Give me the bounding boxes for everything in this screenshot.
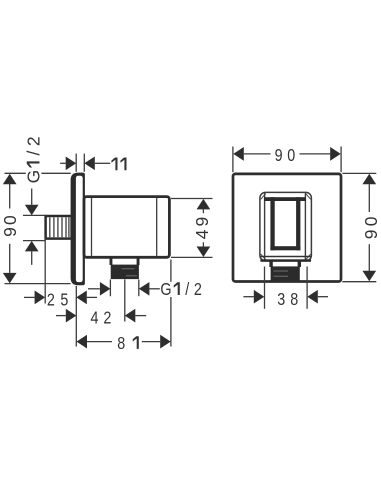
label G 1/2 top left leader bbox=[31, 189, 33, 205]
holder outer outline bbox=[260, 192, 312, 261]
svg-text:9: 9 bbox=[0, 227, 20, 237]
extension line flange left for 25/42/81 bbox=[75, 286, 77, 347]
body inner line 1 bbox=[91, 198, 93, 256]
flange side view bbox=[71, 173, 85, 286]
svg-text:9: 9 bbox=[275, 147, 283, 166]
dimension 49 bbox=[171, 199, 213, 258]
holder inner side lines bbox=[264, 193, 266, 260]
dimension 90 top bbox=[233, 147, 341, 173]
dimension 90 left bbox=[5, 173, 71, 283]
svg-text:8: 8 bbox=[290, 291, 298, 310]
svg-text:9: 9 bbox=[192, 217, 212, 227]
side view body bbox=[84, 197, 169, 258]
outlet thread front view bbox=[271, 266, 300, 280]
wall thread stub bbox=[46, 216, 72, 239]
label G 1/2 bottom bbox=[88, 288, 100, 290]
svg-text:/: / bbox=[23, 151, 43, 156]
holder fork left bbox=[270, 197, 274, 250]
svg-text:5: 5 bbox=[60, 291, 68, 310]
extension lines outlet sides for G 1/2 bbox=[109, 280, 111, 297]
outlet neck front view bbox=[269, 261, 272, 267]
svg-text:4: 4 bbox=[192, 229, 212, 239]
label G 1/2 top left text bbox=[26, 135, 42, 186]
svg-text:2: 2 bbox=[194, 281, 202, 300]
svg-text:2: 2 bbox=[47, 291, 55, 310]
svg-text:4: 4 bbox=[91, 309, 99, 328]
outlet thread side view bbox=[111, 265, 139, 280]
svg-text:0: 0 bbox=[361, 216, 381, 226]
holder corner chamfers bbox=[261, 193, 311, 260]
holder fork right bbox=[296, 197, 300, 250]
svg-text:2: 2 bbox=[23, 136, 43, 146]
svg-text:2: 2 bbox=[103, 309, 111, 328]
extension line stub left for 25 bbox=[44, 237, 46, 304]
holder fork bottom bbox=[270, 246, 300, 250]
svg-text:3: 3 bbox=[277, 291, 285, 310]
dimension 81 bbox=[77, 335, 88, 349]
holder bottom band bbox=[261, 256, 311, 258]
svg-text:0: 0 bbox=[287, 147, 295, 166]
extension line outlet center for 42 bbox=[124, 279, 126, 321]
svg-text:/: / bbox=[185, 281, 189, 300]
dimension 90 right bbox=[342, 173, 376, 281]
dimension 42 bbox=[56, 315, 66, 317]
stub hatch bbox=[50, 217, 69, 237]
dimension 25 bbox=[24, 296, 35, 298]
outlet neck side view bbox=[110, 257, 113, 265]
extension line body right for 81 bbox=[170, 260, 172, 347]
svg-text:9: 9 bbox=[361, 230, 381, 240]
dimension 11 bbox=[60, 154, 110, 172]
svg-text:0: 0 bbox=[0, 215, 20, 225]
svg-text:G: G bbox=[160, 281, 171, 300]
holder top bar bbox=[264, 197, 306, 201]
svg-text:8: 8 bbox=[117, 335, 125, 354]
svg-text:G: G bbox=[23, 170, 43, 184]
dimension 38 bbox=[243, 267, 328, 309]
body inner line 2 bbox=[156, 198, 158, 256]
front view square plate bbox=[233, 174, 341, 282]
